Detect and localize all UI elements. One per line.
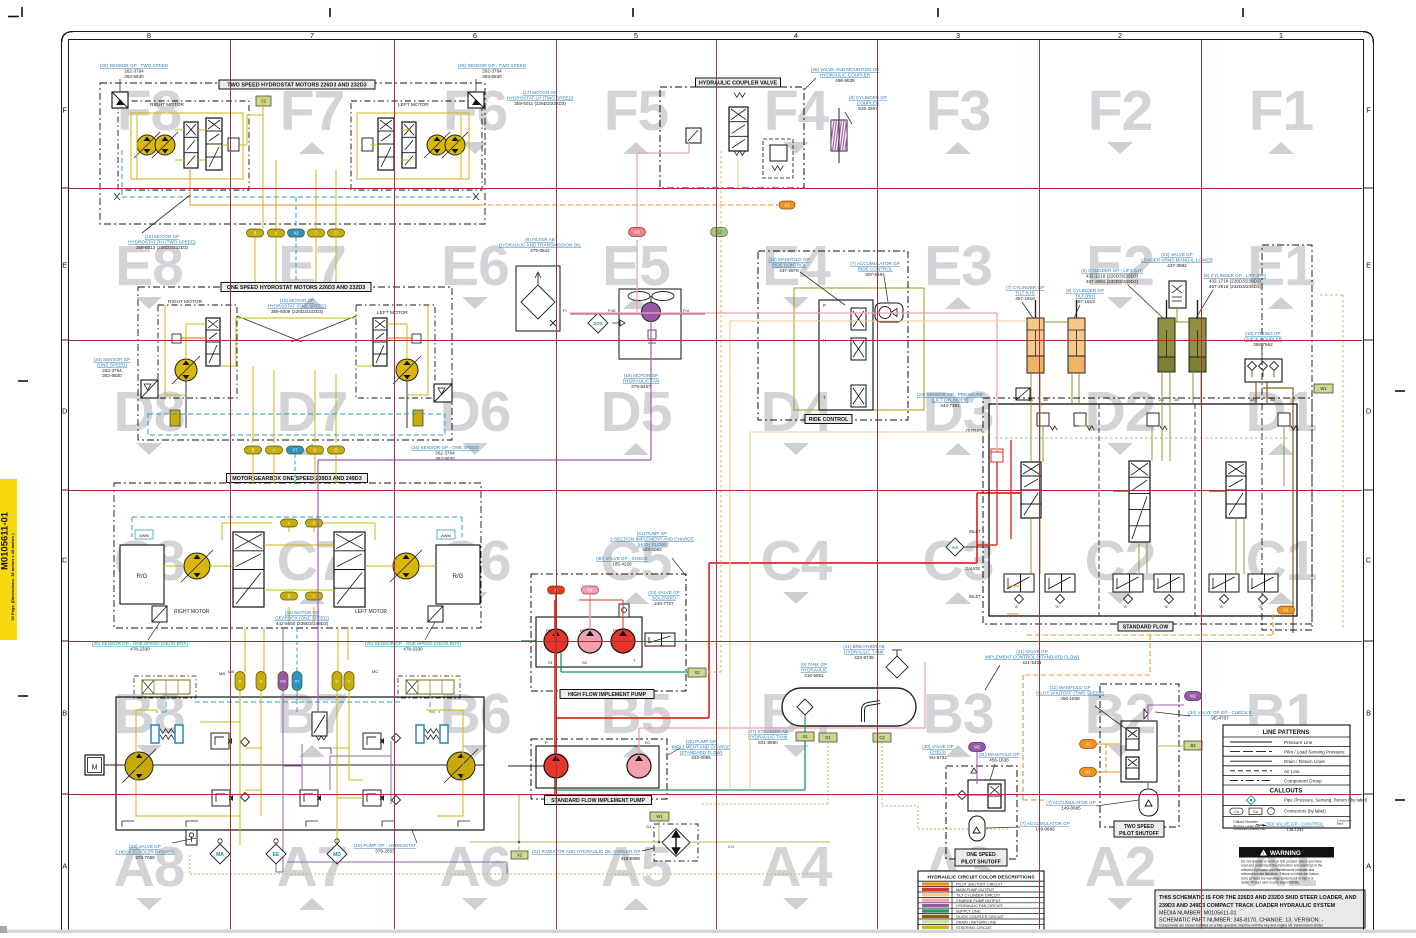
svg-text:432-1718 (226D3/239D3): 432-1718 (226D3/239D3) bbox=[1209, 278, 1262, 283]
svg-text:457-1913: 457-1913 bbox=[1075, 299, 1095, 304]
svg-text:X2: X2 bbox=[802, 734, 808, 739]
svg-text:423-9748: 423-9748 bbox=[854, 655, 874, 660]
svg-text:F: F bbox=[62, 106, 67, 115]
svg-text:IMPLEMENT CONTROL (STANDARD FL: IMPLEMENT CONTROL (STANDARD FLOW) bbox=[985, 654, 1080, 659]
svg-text:HYDRAULIC TANK: HYDRAULIC TANK bbox=[748, 734, 789, 739]
svg-text:TWO SPEED HYDROSTAT MOTORS 226: TWO SPEED HYDROSTAT MOTORS 226D3 AND 232… bbox=[227, 83, 366, 89]
svg-text:437-2878: 437-2878 bbox=[779, 268, 799, 273]
svg-text:C: C bbox=[348, 679, 351, 684]
svg-text:STANDARD FLOW IMPLEMENT PUMP: STANDARD FLOW IMPLEMENT PUMP bbox=[551, 798, 645, 804]
svg-text:A1: A1 bbox=[1085, 742, 1091, 747]
svg-text:ONE SPEED: ONE SPEED bbox=[966, 852, 996, 858]
svg-text:WARNING: WARNING bbox=[1270, 850, 1301, 857]
svg-text:STEERING CIRCUIT: STEERING CIRCUIT bbox=[956, 926, 993, 930]
svg-text:SOLENOID: SOLENOID bbox=[652, 595, 676, 600]
svg-text:HYDRAULIC CIRCUIT COLOR DESCRI: HYDRAULIC CIRCUIT COLOR DESCRIPTIONS bbox=[927, 875, 1035, 881]
svg-text:FnI: FnI bbox=[683, 308, 689, 313]
svg-text:F1: F1 bbox=[1249, 79, 1314, 143]
svg-text:(7) ACCUMULATOR GP: (7) ACCUMULATOR GP bbox=[1020, 821, 1070, 826]
svg-text:262-3764: 262-3764 bbox=[124, 68, 144, 73]
svg-text:P2: P2 bbox=[580, 628, 586, 633]
svg-text:HIGH FLOW IMPLEMENT PUMP: HIGH FLOW IMPLEMENT PUMP bbox=[568, 692, 647, 698]
svg-text:P: P bbox=[823, 303, 826, 308]
svg-text:H1: H1 bbox=[1085, 770, 1091, 775]
svg-text:SUPPLY LINE: SUPPLY LINE bbox=[956, 910, 981, 914]
svg-text:496-9528: 496-9528 bbox=[835, 78, 855, 83]
svg-text:1: 1 bbox=[1279, 31, 1283, 40]
svg-text:TILT CYLINDER CIRCUIT: TILT CYLINDER CIRCUIT bbox=[956, 893, 1001, 897]
svg-text:LEFT MOTOR: LEFT MOTOR bbox=[377, 310, 408, 316]
svg-text:C4: C4 bbox=[761, 529, 833, 593]
svg-text:(17) MOTOR GP: (17) MOTOR GP bbox=[523, 90, 557, 95]
svg-text:(6) CYLINDER GP - LIFT (RH): (6) CYLINDER GP - LIFT (RH) bbox=[1204, 273, 1267, 278]
svg-text:W1: W1 bbox=[1320, 386, 1327, 391]
svg-text:E3: E3 bbox=[924, 234, 992, 298]
svg-text:"A": "A" bbox=[1219, 605, 1225, 609]
svg-text:(7) ACCUMULATOR GP: (7) ACCUMULATOR GP bbox=[1046, 800, 1096, 805]
svg-text:F6: F6 bbox=[443, 79, 508, 143]
svg-text:R1: R1 bbox=[587, 588, 593, 593]
svg-text:515-4387: 515-4387 bbox=[858, 106, 878, 111]
svg-text:D7: D7 bbox=[277, 380, 348, 444]
svg-text:B: B bbox=[252, 448, 255, 453]
svg-text:386-7962: 386-7962 bbox=[1253, 342, 1273, 347]
svg-text:D: D bbox=[1366, 407, 1372, 416]
svg-text:IMPLEMENT AND CHARGE: IMPLEMENT AND CHARGE bbox=[672, 744, 730, 749]
svg-text:GEARBOX (ONE SPEED): GEARBOX (ONE SPEED) bbox=[275, 615, 329, 620]
svg-text:HYDRAULIC COUPLER: HYDRAULIC COUPLER bbox=[820, 72, 871, 77]
svg-text:456-1838: 456-1838 bbox=[989, 757, 1009, 762]
svg-text:P: P bbox=[545, 740, 548, 745]
svg-text:D: D bbox=[336, 679, 339, 684]
svg-text:M: M bbox=[92, 765, 98, 772]
svg-text:(34) VALVE GP GP - CHECK E: (34) VALVE GP GP - CHECK E bbox=[1188, 710, 1252, 715]
svg-text:379-8457: 379-8457 bbox=[631, 384, 651, 389]
svg-text:359-5009 (226D3/232D3): 359-5009 (226D3/232D3) bbox=[271, 309, 324, 314]
svg-text:4: 4 bbox=[794, 31, 798, 40]
svg-text:(7) ACCUMULATOR GP: (7) ACCUMULATOR GP bbox=[850, 261, 900, 266]
svg-text:X2: X2 bbox=[261, 99, 267, 104]
svg-text:A1: A1 bbox=[784, 203, 790, 208]
svg-text:E: E bbox=[1366, 261, 1371, 270]
svg-text:(19) PUMP GP - HYDROSTAT: (19) PUMP GP - HYDROSTAT bbox=[354, 843, 416, 848]
svg-text:30 Page, (Dimensions: 39 inche: 30 Page, (Dimensions: 39 inches x 28 inc… bbox=[10, 533, 15, 621]
svg-text:X2: X2 bbox=[293, 231, 299, 236]
svg-text:F3: F3 bbox=[926, 79, 991, 143]
svg-text:F2: F2 bbox=[1088, 79, 1153, 143]
svg-text:B2: B2 bbox=[1190, 743, 1196, 748]
svg-text:B: B bbox=[254, 231, 257, 236]
svg-text:C2: C2 bbox=[716, 230, 722, 235]
svg-text:9E-4707: 9E-4707 bbox=[1211, 715, 1229, 720]
svg-text:(26) SENSOR GP - TWO SPEED: (26) SENSOR GP - TWO SPEED bbox=[100, 63, 169, 68]
svg-text:(5) CYLINDER GP - LIFT (LH): (5) CYLINDER GP - LIFT (LH) bbox=[1081, 268, 1143, 273]
svg-text:3 SECTION IMPLEMENT AND CHARGE: 3 SECTION IMPLEMENT AND CHARGE bbox=[610, 536, 694, 541]
svg-text:363-6830: 363-6830 bbox=[482, 74, 502, 79]
svg-text:A: A bbox=[275, 231, 278, 236]
svg-text:501-8690: 501-8690 bbox=[758, 740, 778, 745]
svg-text:RIDE CONTROL: RIDE CONTROL bbox=[858, 266, 893, 271]
svg-text:S2: S2 bbox=[582, 660, 588, 665]
svg-text:Pilot / Load Sensing Pressure: Pilot / Load Sensing Pressure bbox=[1284, 750, 1345, 755]
svg-text:(20) PUMP GP: (20) PUMP GP bbox=[686, 739, 717, 744]
svg-text:B: B bbox=[288, 594, 291, 599]
svg-text:RIGHT MOTOR: RIGHT MOTOR bbox=[174, 609, 210, 615]
svg-text:"A": "A" bbox=[1258, 605, 1264, 609]
svg-text:Pipe (Pressure, Sensing, Retur: Pipe (Pressure, Sensing, Return / by lab… bbox=[1284, 798, 1368, 803]
svg-text:MB: MB bbox=[219, 671, 225, 676]
svg-text:death. Proper care is your res: death. Proper care is your responsibilit… bbox=[1241, 881, 1300, 885]
svg-text:(31) MANIFOLD GP: (31) MANIFOLD GP bbox=[978, 752, 1019, 757]
svg-text:D: D bbox=[62, 407, 68, 416]
svg-text:MEDIA NUMBER: M0105611-01: MEDIA NUMBER: M0105611-01 bbox=[1159, 911, 1237, 917]
svg-text:E: E bbox=[62, 261, 67, 270]
svg-text:MB: MB bbox=[228, 669, 234, 674]
svg-text:R1: R1 bbox=[645, 740, 651, 745]
svg-text:FI: FI bbox=[563, 308, 567, 313]
svg-text:(26) SENSOR GP - TWO SPEED: (26) SENSOR GP - TWO SPEED bbox=[458, 63, 527, 68]
svg-text:X7: X7 bbox=[295, 679, 301, 684]
svg-text:344-7391: 344-7391 bbox=[940, 403, 960, 408]
svg-text:D2: D2 bbox=[1085, 380, 1156, 444]
svg-text:SOS: SOS bbox=[593, 321, 603, 326]
svg-text:(6) FILTER AB: (6) FILTER AB bbox=[525, 237, 555, 242]
svg-text:C: C bbox=[62, 556, 68, 565]
svg-text:262-3764: 262-3764 bbox=[482, 68, 502, 73]
svg-text:Drain / Return Lines: Drain / Return Lines bbox=[1284, 759, 1326, 764]
svg-text:363-6830: 363-6830 bbox=[102, 373, 122, 378]
svg-text:A6: A6 bbox=[440, 835, 511, 899]
svg-text:(50) VALVE GP - CONTROL: (50) VALVE GP - CONTROL bbox=[1266, 822, 1324, 827]
svg-text:F8: F8 bbox=[117, 79, 182, 143]
svg-text:Air Line: Air Line bbox=[1284, 769, 1300, 774]
svg-text:R/G: R/G bbox=[453, 574, 464, 580]
svg-text:B: B bbox=[62, 709, 67, 718]
svg-text:(23) SENSOR GP - PRESSURE: (23) SENSOR GP - PRESSURE bbox=[917, 392, 983, 397]
svg-text:MOTOR GEARBOX ONE SPEED 239D3: MOTOR GEARBOX ONE SPEED 239D3 AND 249D3 bbox=[232, 476, 361, 482]
svg-text:478-2330: 478-2330 bbox=[130, 646, 150, 651]
svg-text:(33) VALVE GP: (33) VALVE GP bbox=[648, 590, 680, 595]
svg-text:(15) MOTOR GP: (15) MOTOR GP bbox=[285, 610, 319, 615]
svg-text:457-1919: 457-1919 bbox=[1015, 296, 1035, 301]
svg-text:HYDROSTAT LH (TWO SPEED): HYDROSTAT LH (TWO SPEED) bbox=[507, 95, 574, 100]
svg-text:(21) PUMP GP: (21) PUMP GP bbox=[637, 531, 668, 536]
svg-text:363-6830: 363-6830 bbox=[124, 74, 144, 79]
svg-text:DRAIN / RETURN LINE: DRAIN / RETURN LINE bbox=[956, 920, 997, 924]
svg-text:"A": "A" bbox=[1123, 605, 1129, 609]
svg-text:D5: D5 bbox=[601, 380, 672, 444]
svg-text:P1: P1 bbox=[546, 628, 552, 633]
svg-text:C: C bbox=[312, 594, 315, 599]
svg-text:R/G: R/G bbox=[137, 574, 148, 580]
svg-text:(8) CYLINDER GP: (8) CYLINDER GP bbox=[1066, 288, 1104, 293]
svg-text:C: C bbox=[314, 231, 317, 236]
svg-text:Components are shown installed: Components are shown installed on a full… bbox=[1159, 924, 1324, 928]
svg-text:W1: W1 bbox=[634, 230, 641, 235]
svg-text:X2: X2 bbox=[694, 670, 700, 675]
svg-text:QUICK COUPLER CIRCUIT: QUICK COUPLER CIRCUIT bbox=[956, 915, 1005, 919]
svg-text:A: A bbox=[1366, 862, 1371, 871]
svg-text:MA: MA bbox=[216, 852, 224, 858]
svg-text:AWM: AWM bbox=[139, 533, 149, 538]
svg-text:(8) CYLINDER GP: (8) CYLINDER GP bbox=[849, 95, 887, 100]
svg-text:(HIGH FLOW): (HIGH FLOW) bbox=[637, 542, 667, 547]
svg-text:HYDRAULIC FAN CIRCUIT: HYDRAULIC FAN CIRCUIT bbox=[956, 904, 1004, 908]
svg-text:"A": "A" bbox=[1055, 605, 1061, 609]
svg-text:A: A bbox=[260, 679, 263, 684]
svg-text:COUPLER: COUPLER bbox=[857, 100, 880, 105]
svg-text:(9) TANK GP: (9) TANK GP bbox=[801, 662, 828, 667]
svg-text:THIS SCHEMATIC IS FOR THE 226D: THIS SCHEMATIC IS FOR THE 226D3 AND 232D… bbox=[1159, 895, 1357, 901]
svg-text:6: 6 bbox=[473, 31, 477, 40]
svg-text:RIDE CONTROL: RIDE CONTROL bbox=[809, 417, 849, 423]
svg-text:Component Location/Title): Component Location/Title) bbox=[1233, 827, 1266, 831]
svg-text:138-1234: 138-1234 bbox=[1287, 827, 1305, 832]
svg-text:239D3 AND 249D3 COMPACT TRACK: 239D3 AND 249D3 COMPACT TRACK LOADER HYD… bbox=[1159, 903, 1336, 909]
svg-text:416-5951: 416-5951 bbox=[804, 673, 824, 678]
svg-text:PILOT SHUTOFF CIRCUIT: PILOT SHUTOFF CIRCUIT bbox=[956, 883, 1003, 887]
svg-text:T: T bbox=[823, 395, 826, 400]
svg-text:MC: MC bbox=[372, 669, 378, 674]
svg-text:432-1218 (226D3/239D3): 432-1218 (226D3/239D3) bbox=[1086, 273, 1139, 278]
svg-text:PILOT SHUTOFF (TWO SPEED): PILOT SHUTOFF (TWO SPEED) bbox=[1036, 690, 1104, 695]
svg-text:(24) SENSOR GP: (24) SENSOR GP bbox=[94, 357, 131, 362]
svg-text:(7) CYLINDER GP: (7) CYLINDER GP bbox=[1006, 285, 1044, 290]
svg-text:CHECK (COOLER BYPASS): CHECK (COOLER BYPASS) bbox=[115, 849, 175, 854]
svg-text:(13) MANIFOLD GP: (13) MANIFOLD GP bbox=[768, 257, 809, 262]
svg-text:RIGHT MOTOR: RIGHT MOTOR bbox=[168, 299, 202, 305]
svg-text:M2: M2 bbox=[974, 745, 980, 750]
svg-text:D: D bbox=[312, 521, 315, 526]
svg-text:(15) MOTOR GP: (15) MOTOR GP bbox=[145, 234, 179, 239]
svg-text:(36) VALVE AND MOUNTING GP: (36) VALVE AND MOUNTING GP bbox=[811, 67, 880, 72]
svg-text:HYDRAULIC FAN: HYDRAULIC FAN bbox=[623, 378, 660, 383]
svg-text:X7: X7 bbox=[292, 448, 298, 453]
svg-text:457-2918 (232D3/249D3): 457-2918 (232D3/249D3) bbox=[1209, 284, 1262, 289]
svg-text:D1: D1 bbox=[825, 735, 831, 740]
svg-text:149-0685: 149-0685 bbox=[1061, 805, 1081, 810]
svg-text:(21) BREATHER AB: (21) BREATHER AB bbox=[843, 644, 884, 649]
svg-text:MAIN PUMP OUTPUT: MAIN PUMP OUTPUT bbox=[956, 888, 995, 892]
svg-text:A: A bbox=[62, 862, 67, 871]
svg-text:9U-6731: 9U-6731 bbox=[929, 755, 947, 760]
svg-text:Ca: Ca bbox=[1234, 810, 1239, 814]
svg-text:M0105611-01: M0105611-01 bbox=[0, 511, 11, 570]
svg-text:F4: F4 bbox=[764, 79, 830, 143]
svg-text:B: B bbox=[239, 679, 242, 684]
svg-text:437-3982: 437-3982 bbox=[1167, 263, 1187, 268]
svg-text:LEFT MOTOR: LEFT MOTOR bbox=[355, 609, 387, 615]
svg-text:423-0085: 423-0085 bbox=[691, 755, 711, 760]
svg-text:(28) VALVE GP: (28) VALVE GP bbox=[129, 844, 161, 849]
svg-text:A4: A4 bbox=[761, 835, 833, 899]
svg-text:307-6594: 307-6594 bbox=[865, 272, 885, 277]
svg-text:262-3764: 262-3764 bbox=[435, 450, 455, 455]
svg-text:A: A bbox=[288, 521, 291, 526]
svg-text:(24) SENSOR GP - ONE SPEED: (24) SENSOR GP - ONE SPEED bbox=[411, 445, 479, 450]
svg-text:HYDRAULIC TANK: HYDRAULIC TANK bbox=[844, 649, 885, 654]
svg-text:M2: M2 bbox=[1190, 694, 1196, 699]
svg-text:(LIFT CYLINDER): (LIFT CYLINDER) bbox=[932, 397, 969, 402]
svg-text:Sa: Sa bbox=[1253, 810, 1257, 814]
svg-text:5: 5 bbox=[634, 31, 638, 40]
svg-text:!: ! bbox=[1263, 852, 1264, 856]
svg-text:149-0686: 149-0686 bbox=[1035, 826, 1055, 831]
svg-text:C: C bbox=[313, 448, 316, 453]
svg-text:D: D bbox=[334, 231, 337, 236]
svg-text:(ONE SPEED): (ONE SPEED) bbox=[97, 362, 127, 367]
svg-text:FnD: FnD bbox=[608, 308, 616, 313]
svg-text:CHARGE PUMP OUTPUT: CHARGE PUMP OUTPUT bbox=[956, 899, 1002, 903]
svg-text:ONE SPEED HYDROSTAT MOTORS 226: ONE SPEED HYDROSTAT MOTORS 226D3 AND 232… bbox=[227, 285, 366, 291]
svg-text:LEFT MOTOR: LEFT MOTOR bbox=[398, 102, 429, 108]
svg-text:(16) MOTOR GP: (16) MOTOR GP bbox=[624, 373, 658, 378]
svg-text:X2: X2 bbox=[517, 853, 523, 858]
svg-text:G1: G1 bbox=[646, 824, 652, 829]
svg-text:A5: A5 bbox=[601, 835, 672, 899]
svg-text:A: A bbox=[273, 448, 276, 453]
svg-text:TILT (RH): TILT (RH) bbox=[1075, 293, 1095, 298]
svg-text:F: F bbox=[1366, 106, 1371, 115]
svg-text:CHECK: CHECK bbox=[930, 749, 947, 754]
svg-text:2: 2 bbox=[1118, 31, 1122, 40]
svg-text:3: 3 bbox=[956, 31, 960, 40]
svg-text:418-5696: 418-5696 bbox=[621, 856, 641, 861]
svg-text:CO: CO bbox=[728, 844, 734, 849]
svg-text:"A": "A" bbox=[1164, 605, 1170, 609]
svg-text:D4: D4 bbox=[761, 380, 833, 444]
svg-text:379-2653: 379-2653 bbox=[375, 848, 395, 853]
svg-text:RIGHT MOTOR: RIGHT MOTOR bbox=[150, 102, 184, 108]
svg-text:HYDRAULIC: HYDRAULIC bbox=[801, 667, 828, 672]
svg-text:(22) RADIATOR AND HYDRAULIC OI: (22) RADIATOR AND HYDRAULIC OIL COOLER G… bbox=[532, 849, 640, 854]
svg-text:TWO SPEED: TWO SPEED bbox=[1124, 824, 1154, 830]
svg-text:(15) MOTOR GP: (15) MOTOR GP bbox=[280, 298, 314, 303]
svg-text:(22) VALVE GP: (22) VALVE GP bbox=[1161, 252, 1193, 257]
svg-text:HYDRAULIC COUPLER VALVE: HYDRAULIC COUPLER VALVE bbox=[699, 81, 778, 87]
svg-text:GAUGE: GAUGE bbox=[965, 566, 980, 571]
svg-text:A2: A2 bbox=[1085, 835, 1156, 899]
svg-text:RIDE CONTROL: RIDE CONTROL bbox=[772, 262, 807, 267]
svg-text:Pressure Line: Pressure Line bbox=[1284, 740, 1313, 745]
svg-text:Component Group: Component Group bbox=[1284, 778, 1322, 783]
svg-text:MD: MD bbox=[333, 852, 341, 858]
svg-text:D: D bbox=[334, 448, 337, 453]
svg-text:HYDRAULIC AND TRANSMISSION OIL: HYDRAULIC AND TRANSMISSION OIL bbox=[499, 242, 582, 247]
svg-text:C: C bbox=[1366, 556, 1372, 565]
svg-text:STANDARD FLOW: STANDARD FLOW bbox=[1123, 625, 1169, 631]
svg-text:457-2061 (232D3/249D3): 457-2061 (232D3/249D3) bbox=[1086, 279, 1139, 284]
svg-text:8: 8 bbox=[147, 31, 151, 40]
svg-text:INLET: INLET bbox=[969, 529, 981, 534]
svg-text:Connectors (by label): Connectors (by label) bbox=[1284, 809, 1326, 814]
svg-text:(21) VALVE GP: (21) VALVE GP bbox=[1016, 649, 1048, 654]
svg-text:LOADER ARMS MANUAL LOWER: LOADER ARMS MANUAL LOWER bbox=[1141, 257, 1213, 262]
svg-text:M3: M3 bbox=[280, 679, 286, 684]
svg-text:W1: W1 bbox=[656, 814, 663, 819]
svg-text:PILOT SHUTOFF: PILOT SHUTOFF bbox=[961, 860, 1001, 866]
svg-text:456-1838: 456-1838 bbox=[1060, 696, 1080, 701]
svg-text:(30) VALVE GP - CHECK: (30) VALVE GP - CHECK bbox=[596, 556, 649, 561]
svg-text:(30) VALVE GP: (30) VALVE GP bbox=[922, 744, 954, 749]
svg-text:PILOT SHUTOFF: PILOT SHUTOFF bbox=[1119, 831, 1159, 837]
svg-text:478-2330: 478-2330 bbox=[403, 646, 423, 651]
svg-text:AWM: AWM bbox=[441, 533, 451, 538]
svg-text:CALLOUTS: CALLOUTS bbox=[1270, 789, 1303, 795]
svg-text:"A": "A" bbox=[1014, 605, 1020, 609]
svg-text:185-4226: 185-4226 bbox=[612, 561, 632, 566]
svg-text:479-0542: 479-0542 bbox=[530, 248, 550, 253]
svg-text:(12) MANIFOLD GP: (12) MANIFOLD GP bbox=[1049, 685, 1090, 690]
svg-text:AA: AA bbox=[952, 545, 959, 550]
svg-text:F5: F5 bbox=[604, 79, 669, 143]
svg-text:TILT (LH): TILT (LH) bbox=[1015, 290, 1035, 295]
svg-text:B: B bbox=[1366, 709, 1371, 718]
svg-text:B3: B3 bbox=[923, 682, 994, 746]
svg-text:(27) STRAINER AB: (27) STRAINER AB bbox=[748, 729, 788, 734]
svg-text:HYDROSTAT RH (TWO SPEED): HYDROSTAT RH (TWO SPEED) bbox=[128, 239, 196, 244]
svg-text:262-3764: 262-3764 bbox=[102, 368, 122, 373]
svg-text:(10) FITTING GP: (10) FITTING GP bbox=[1245, 331, 1280, 336]
svg-text:C2: C2 bbox=[879, 735, 885, 740]
svg-text:LINE PATTERNS: LINE PATTERNS bbox=[1263, 730, 1310, 736]
svg-text:S1: S1 bbox=[548, 660, 554, 665]
svg-text:7: 7 bbox=[310, 31, 314, 40]
svg-text:INLET: INLET bbox=[969, 594, 981, 599]
svg-text:359-5013 (226D3/232D3): 359-5013 (226D3/232D3) bbox=[136, 245, 189, 250]
svg-text:HYDROSTAT (ONE SPEED): HYDROSTAT (ONE SPEED) bbox=[268, 303, 327, 308]
svg-text:EE: EE bbox=[273, 852, 280, 858]
svg-text:359-5011 (226D3/232D3): 359-5011 (226D3/232D3) bbox=[514, 101, 566, 106]
svg-text:442-5650 (239D3/249D3): 442-5650 (239D3/249D3) bbox=[276, 621, 329, 626]
svg-text:423-0082: 423-0082 bbox=[642, 547, 662, 552]
svg-text:373-7059: 373-7059 bbox=[135, 855, 155, 860]
svg-text:E5: E5 bbox=[602, 234, 670, 298]
svg-text:P3: P3 bbox=[613, 628, 619, 633]
svg-text:H1: H1 bbox=[1283, 608, 1289, 613]
svg-text:Back: Back bbox=[1337, 822, 1344, 826]
svg-text:249-7707: 249-7707 bbox=[654, 601, 674, 606]
